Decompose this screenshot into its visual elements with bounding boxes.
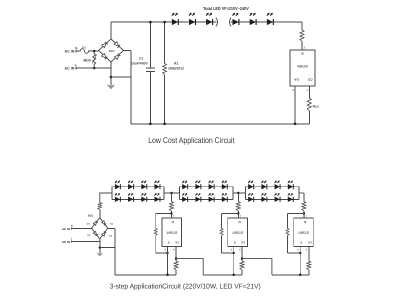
op-amp U1 DT350 body (290, 50, 315, 86)
break mark right (229, 18, 231, 27)
svg-text:Total LED VF=210V~240V: Total LED VF=210V~240V (203, 6, 249, 11)
wire stage1 startup branch left (155, 214, 157, 254)
svg-text:S: S (300, 240, 302, 244)
junction MOV bottom (93, 67, 96, 70)
label AC IN (L) bottom (62, 238, 73, 244)
wire AC L lead bottom (71, 240, 100, 242)
LED G3R1b (261, 180, 266, 189)
LED G2R2c (209, 193, 214, 202)
junction stage2 tap (237, 192, 239, 194)
resistor R1 (163, 61, 184, 75)
wire stage2 pin S to bus (231, 246, 234, 274)
wire DC- column (130, 51, 132, 124)
wire bus segment 1 (115, 274, 176, 276)
junction stage3 D branch (303, 212, 305, 214)
LED G1R1d (155, 180, 160, 189)
svg-text:DT350T: DT350T (298, 230, 309, 234)
label U1 pin D (301, 52, 304, 56)
wire stage1 pin CS lead (173, 246, 176, 261)
LED D3 (206, 13, 212, 25)
wire group3 to stage3 resistor (299, 192, 304, 194)
wire stage3 Rcs to bus (308, 270, 310, 275)
svg-text:3-step ApplicationCircuit (220: 3-step ApplicationCircuit (220V/10W, LED… (110, 282, 261, 290)
LED G3R1c (275, 180, 280, 189)
LED D5 (250, 13, 256, 25)
LED G2R1d (222, 180, 227, 189)
wire AC N lead bottom (71, 227, 91, 229)
break mark left (216, 18, 218, 27)
LED G3R1a (248, 180, 253, 189)
wire stage3 startup branch top (288, 213, 304, 215)
wire rail to series resistor (301, 22, 303, 30)
label U2 DT350T (166, 230, 177, 234)
wire bus segment 3 (272, 274, 309, 276)
junction R1 rail (163, 21, 166, 24)
svg-text:C1: C1 (139, 56, 143, 60)
resistor feed R (98, 203, 102, 210)
wire stage3 startup branch left (287, 214, 289, 254)
svg-text:CS: CS (241, 240, 245, 243)
wire AC neutral lead (76, 50, 81, 53)
wire stage3 startup branch bottom (288, 252, 301, 254)
svg-text:Rcs: Rcs (313, 105, 319, 109)
wire return column (114, 228, 116, 274)
svg-text:L: L (75, 63, 77, 67)
LED G3R1d (288, 180, 293, 189)
wire stage2 startup branch bottom (222, 252, 234, 254)
junction C1 rail (149, 21, 152, 24)
label U1 pin CS (308, 78, 312, 82)
resistor stage1 drain (170, 202, 174, 212)
wire R1 top lead (164, 22, 166, 64)
svg-text:BD1: BD1 (88, 214, 94, 218)
wire stage2 resistor to pin D (238, 211, 241, 218)
junction stage3 S branch (299, 252, 301, 254)
label U4 pin CS (308, 240, 312, 243)
LED G1R2b (128, 193, 133, 202)
wire stage1 resistor to pin D (172, 211, 175, 218)
wire R1 bottom lead (164, 75, 166, 124)
junction stage3 S bus (299, 274, 302, 277)
svg-text:N: N (75, 46, 77, 50)
wire bottom return bus (131, 123, 309, 125)
label Total LED VF (203, 6, 249, 11)
junction stage2 D branch (237, 212, 239, 214)
wire stage2 startup branch left (221, 214, 223, 254)
wire feed riser (100, 193, 112, 203)
capacitor C1 (131, 56, 155, 71)
caption low cost (148, 136, 235, 145)
junction stage1 D branch (170, 212, 172, 214)
wire AC line lead (76, 67, 111, 70)
LED G2R2a (182, 193, 187, 202)
wire stage2 pin CS lead (239, 246, 242, 261)
svg-text:S: S (234, 240, 236, 244)
LED G3R2d (288, 193, 293, 202)
wire stage2 startup branch top (222, 213, 239, 215)
resistor stage3 startup (286, 228, 289, 235)
svg-text:R1: R1 (174, 61, 178, 65)
wire group2-group3 feed (233, 192, 246, 194)
svg-text:MOV: MOV (83, 58, 91, 62)
junction C1 bus (149, 123, 152, 126)
fuse F1 (80, 46, 88, 54)
bridge rectifier BD1 (99, 39, 124, 62)
resistor stage2 drain (236, 202, 240, 212)
wire ground node to DC- column (111, 76, 131, 78)
label U3 pin CS (241, 240, 245, 243)
label U1 pin GA (294, 78, 299, 82)
LED array group 3 frame (245, 187, 298, 200)
LED G3R2c (275, 193, 280, 202)
svg-text:DT350: DT350 (297, 64, 307, 68)
label U3 pin D (238, 220, 241, 224)
wire stage1 CS cascade (176, 259, 203, 275)
label U2 pin D (171, 220, 174, 224)
LED D6 (267, 13, 273, 25)
wire stage1 Rcs to bus (175, 270, 177, 275)
label AC IN (N) terminal (65, 46, 78, 54)
label U3 DT350T (232, 230, 243, 234)
wire bus segment 2 (203, 274, 242, 276)
wire stage3 resistor to pin D (304, 211, 307, 218)
wire bridge bottom node (110, 62, 112, 85)
label U1 DT350 (297, 64, 307, 68)
label U4 DT350T (298, 230, 309, 234)
svg-text:Low Cost Application Circuit: Low Cost Application Circuit (148, 136, 235, 145)
svg-text:BD1: BD1 (109, 49, 115, 53)
wire bridge right vertex (3-step) (108, 227, 115, 229)
wire stage1 pin S to bus (164, 246, 167, 274)
LED array group 1 frame (112, 187, 164, 200)
svg-text:N: N (71, 225, 73, 228)
LED G2R2b (195, 193, 200, 202)
LED D1 (172, 13, 178, 25)
wire top positive rail (111, 21, 302, 23)
junction ground node (110, 76, 113, 79)
wire bridge output riser (110, 22, 112, 39)
wire stage3 pin S to bus (297, 246, 300, 274)
wire stage1 tap to resistor (171, 193, 173, 202)
wire C1 top lead (149, 22, 151, 68)
wire stage3 corner (303, 193, 305, 202)
wire pin 3 (GA) to bus (292, 86, 295, 124)
wire group1-group2 feed (164, 192, 179, 194)
junction GA bus (294, 123, 297, 126)
wire resistor to pin 2 (302, 42, 306, 51)
op-amp U2 DT350T body (162, 218, 182, 246)
svg-text:DT350T: DT350T (166, 230, 177, 234)
svg-text:DT350T: DT350T (232, 230, 243, 234)
junction stage1 CS node (175, 257, 177, 259)
wire stage2 tap to resistor (237, 193, 239, 202)
op-amp U4 DT350T body (294, 218, 314, 246)
LED G2R1c (209, 180, 214, 189)
junction stage2 S bus (232, 274, 235, 277)
label U4 pin S (300, 240, 302, 244)
junction stage2 S branch (233, 252, 235, 254)
label U2 pin S (168, 240, 170, 244)
LED array group 2 frame (179, 187, 233, 200)
junction R1 bus (163, 123, 166, 126)
varistor MOV (83, 51, 96, 68)
junction stage2 CS node (241, 257, 243, 259)
label U3 pin S (234, 240, 236, 244)
LED G2R1a (182, 180, 187, 189)
resistor stage1 Rcs (174, 261, 178, 270)
bridge rectifier BD1 (3-step) (87, 214, 114, 239)
svg-text:1MΩ/2012: 1MΩ/2012 (168, 66, 184, 70)
LED D2 (189, 13, 195, 25)
wire pin 1 (CS) lead (306, 86, 309, 98)
label U2 pin CS (175, 240, 179, 243)
LED G3R2a (248, 193, 253, 202)
svg-text:CS: CS (175, 240, 179, 243)
wire bridge top riser (3-step) (99, 210, 101, 218)
junction stage1 S bus (166, 274, 169, 277)
resistor stage2 Rcs (240, 261, 244, 270)
wire stage2 Rcs to bus (241, 270, 243, 275)
resistor stage3 Rcs (307, 261, 311, 270)
LED G3R2b (261, 193, 266, 202)
wire ground to return column (100, 247, 115, 249)
junction MOV top (93, 50, 96, 53)
svg-text:CS: CS (308, 240, 312, 243)
ground (3-step) (96, 253, 103, 257)
resistor Rcs (307, 98, 319, 111)
series resistor (drain) (300, 30, 304, 42)
LED G2R1b (195, 180, 200, 189)
resistor stage2 startup (220, 228, 223, 235)
wire fuse to bridge (88, 50, 98, 52)
wire stage2 CS cascade (242, 259, 272, 275)
wire stage1 startup branch bottom (156, 252, 168, 254)
svg-text:S: S (168, 240, 170, 244)
wire stage3 pin CS lead (306, 246, 309, 261)
resistor stage1 startup (154, 228, 157, 235)
junction stage1 S branch (166, 252, 168, 254)
LED G1R1b (128, 180, 133, 189)
svg-text:AC IN: AC IN (65, 67, 75, 71)
LED D4 (233, 13, 239, 25)
label AC IN (N) bottom (62, 225, 73, 231)
wire bridge right vertex (124, 50, 132, 52)
LED G1R1c (141, 180, 146, 189)
LED G1R2c (141, 193, 146, 202)
svg-text:AC IN: AC IN (65, 50, 75, 54)
LED G1R2d (155, 193, 160, 202)
label AC IN (L) terminal (65, 63, 78, 70)
wire Rcs to bus (308, 111, 310, 124)
resistor stage3 drain (302, 202, 306, 212)
LED G1R2a (115, 193, 120, 202)
caption 3-step (110, 282, 261, 290)
wire bridge bottom node (3-step) (99, 239, 101, 253)
LED G2R2d (222, 193, 227, 202)
label U4 pin D (303, 220, 306, 224)
LED G1R1a (115, 180, 120, 189)
op-amp U3 DT350T body (228, 218, 248, 246)
ground (107, 85, 116, 90)
svg-text:AC IN: AC IN (62, 240, 70, 244)
wire C1 bottom lead (149, 72, 151, 124)
svg-text:CS: CS (308, 78, 312, 82)
junction ground (3-step) (99, 246, 101, 248)
svg-text:F1: F1 (82, 46, 86, 50)
junction stage1 tap (170, 192, 172, 194)
svg-text:AC IN: AC IN (62, 227, 70, 231)
svg-text:10uF/400V: 10uF/400V (131, 61, 149, 65)
wire stage1 startup branch top (156, 213, 172, 215)
